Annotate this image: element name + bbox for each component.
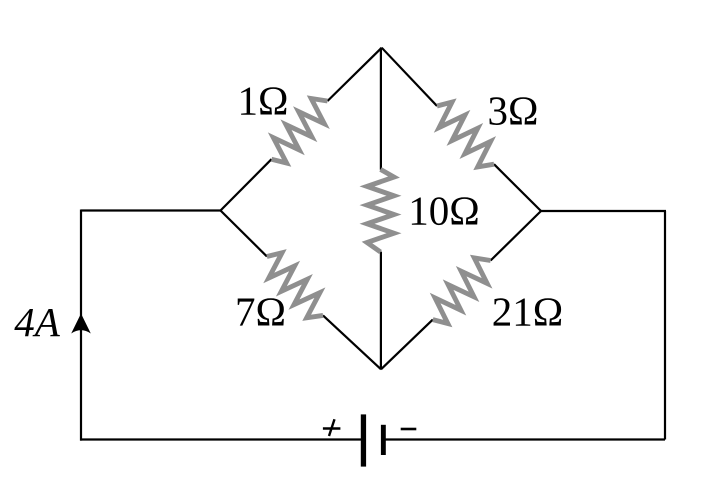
wire: left horizontal from left rail to left node bbox=[81, 209, 221, 211]
resistor R2 3-ohm zigzag bbox=[437, 102, 494, 167]
wire: right horizontal from right node to right rail bbox=[541, 210, 666, 212]
battery V1 short plate (negative) bbox=[381, 425, 386, 455]
svg-text:21Ω: 21Ω bbox=[492, 289, 563, 335]
wire: diagonal bottom node to 21-ohm start bbox=[381, 320, 433, 370]
svg-text:1Ω: 1Ω bbox=[238, 78, 289, 124]
wire: diagonal 7-ohm end to bottom node bbox=[323, 315, 381, 369]
battery plus sign bbox=[323, 419, 341, 436]
current arrow head on left rail bbox=[71, 314, 91, 334]
wire: diagonal top node to 3-ohm start bbox=[382, 48, 437, 106]
wire: diagonal 1-ohm end to top node bbox=[328, 48, 382, 101]
resistor R3 7-ohm zigzag bbox=[267, 253, 323, 318]
wire: bottom rail right of battery bbox=[384, 438, 666, 440]
wire: diagonal 3-ohm end to right node bbox=[494, 164, 541, 211]
battery V1 long plate (positive) bbox=[361, 414, 366, 466]
wire: bottom rail left of battery bbox=[80, 438, 363, 440]
wire: diagonal left node to 1-ohm start bbox=[221, 159, 272, 210]
wire: diagonal left node to 7-ohm start bbox=[221, 211, 267, 257]
svg-text:7Ω: 7Ω bbox=[235, 289, 286, 335]
resistor R1 1-ohm zigzag bbox=[272, 99, 328, 164]
wire: diagonal 21-ohm end to right node bbox=[491, 211, 541, 261]
wire: vertical top node to 10-ohm start bbox=[380, 48, 382, 170]
wire: vertical 10-ohm end to bottom node bbox=[380, 252, 382, 370]
svg-text:10Ω: 10Ω bbox=[408, 188, 479, 234]
resistor R4 21-ohm zigzag bbox=[433, 258, 491, 324]
resistor R5 10-ohm zigzag bbox=[367, 169, 394, 252]
wire: right rail vertical bbox=[664, 211, 666, 440]
wire: left rail vertical bbox=[80, 210, 82, 441]
svg-text:3Ω: 3Ω bbox=[488, 88, 539, 134]
battery minus sign bbox=[401, 428, 417, 431]
svg-text:4A: 4A bbox=[14, 299, 61, 345]
